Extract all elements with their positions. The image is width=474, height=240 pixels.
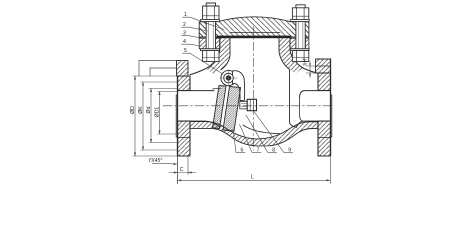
svg-text:ØK: ØK [138,106,144,114]
left bottom washer [200,49,219,51]
svg-text:b+f: b+f [303,58,309,66]
left stud [206,22,215,49]
right neck outer wall [290,38,318,73]
right top nut [292,8,308,20]
right bolt body ear section [290,38,296,49]
right flange face ring line [318,137,331,139]
bottom chamber wall section [190,122,318,146]
bore bottom wall right [297,121,319,127]
dimension b+f right flange [306,62,316,78]
hinge pin boss [221,70,236,85]
svg-text:f'X45°: f'X45° [149,158,162,164]
left flange plate upper section [178,76,191,91]
valve axis centerline [253,26,255,150]
left cover ear section [199,22,206,37]
bolt-hole axis lines [139,60,188,62]
dimension L [329,157,331,184]
dimension ØD1 [158,92,178,135]
pipe axis centerline [163,105,333,107]
hinge arm [233,71,245,101]
right cover ear section [291,22,296,37]
svg-text:Ød: Ød [146,106,152,113]
right bottom washer [290,49,309,51]
svg-text:ØD1: ØD1 [155,107,161,118]
right top washer [290,20,309,22]
left flange plate lower section [178,121,191,156]
cover inner ceiling [230,31,280,33]
svg-text:L: L [251,175,254,181]
disc bottom inner line [243,125,280,134]
disc stub washer [240,101,247,109]
left bolt body ear section [199,38,206,49]
pin centerlines [220,77,237,79]
right stud top end [296,5,305,8]
left bottom nut [203,51,219,62]
dimension Ød [149,89,177,143]
right neck inner wall [279,38,297,127]
left flange raised face [176,95,177,137]
right bottom nut [292,51,308,62]
right flange bolt-hole box [316,59,331,73]
bore bottom wall left [190,121,220,127]
seat counterbore top edge [213,87,222,90]
bore top wall left [190,90,214,92]
left top washer [200,20,219,22]
disc nut [247,99,256,110]
dimension ØK [141,82,177,150]
right flange plate upper section [318,73,331,91]
seat ring section [213,86,227,129]
left flange bolt-hole box [177,61,189,77]
left flange face line [177,76,179,156]
outlet counterbore edge [300,97,303,121]
disc section [223,87,241,132]
left neck outer wall [190,38,220,75]
left neck inner wall [222,38,231,70]
dimension ØD [133,76,178,156]
right neck wall section [279,38,304,73]
dimension C [177,156,179,184]
right flange raised face [331,95,332,137]
left neck wall section [206,38,230,74]
svg-text:ØD: ØD [130,106,136,114]
right flange plate lower section [318,121,331,156]
cover dome hatched section [199,17,309,37]
left stud top end [206,3,215,6]
left flange face ring line [178,137,191,139]
bore top wall right [300,91,318,97]
gasket joint band [217,36,292,39]
left top nut [203,6,219,20]
hinge pin [224,73,234,83]
right stud [296,22,305,49]
svg-text:C: C [180,167,184,173]
right flange face line [330,59,332,156]
